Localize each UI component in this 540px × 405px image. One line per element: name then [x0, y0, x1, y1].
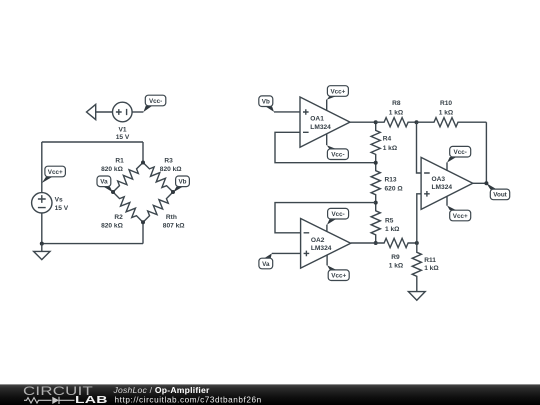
svg-text:15 V: 15 V — [55, 205, 69, 212]
svg-text:OA1: OA1 — [310, 116, 324, 123]
resistor R5 1 kΩ — [371, 203, 400, 243]
svg-text:820 kΩ: 820 kΩ — [101, 223, 124, 230]
svg-text:820 kΩ: 820 kΩ — [101, 166, 124, 173]
resistor R11 1 kΩ — [412, 243, 439, 292]
flag Vb (OA1 input) — [259, 96, 274, 112]
svg-text:Vcc-: Vcc- — [149, 98, 162, 105]
resistor R3 820 kΩ — [140, 158, 183, 196]
wire (bridge loop bottom) — [42, 243, 143, 245]
flag Vcc- (OA2 top) — [327, 208, 349, 224]
svg-text:807 kΩ: 807 kΩ — [163, 223, 186, 230]
svg-text:R9: R9 — [391, 254, 400, 261]
svg-text:Vs: Vs — [55, 196, 63, 203]
svg-text:http://circuitlab.com/c73dtban: http://circuitlab.com/c73dtbanbf26n — [115, 395, 262, 404]
svg-text:Vcc+: Vcc+ — [330, 88, 345, 95]
svg-text:JoshLoc / Op-Amplifier: JoshLoc / Op-Amplifier — [113, 385, 211, 395]
voltage source Vs 15 V — [32, 193, 69, 213]
svg-text:Vcc+: Vcc+ — [48, 169, 63, 176]
svg-text:R3: R3 — [164, 158, 173, 165]
resistor R2 820 kΩ — [101, 189, 146, 230]
svg-text:R2: R2 — [114, 214, 123, 221]
wire (top stub to bridge) — [142, 142, 144, 163]
svg-text:Rth: Rth — [166, 214, 177, 221]
flag Vcc+ (OA1 top) — [327, 86, 349, 100]
svg-text:LM324: LM324 — [432, 184, 453, 191]
resistor R8 1 kΩ — [376, 100, 417, 127]
svg-text:Vcc+: Vcc+ — [331, 273, 346, 280]
flag Vcc- (OA3 top) — [447, 146, 471, 162]
wire (Va to OA2 +) — [272, 252, 301, 254]
junction (R4 / R13 / OA1 feedback) — [374, 161, 378, 165]
ground (left-pointing, at V1 negative terminal) — [87, 104, 96, 119]
wire — [132, 111, 143, 113]
svg-text:1 kΩ: 1 kΩ — [383, 145, 398, 152]
svg-text:R4: R4 — [383, 136, 392, 143]
svg-text:Vcc+: Vcc+ — [453, 213, 468, 220]
svg-text:OA3: OA3 — [432, 176, 446, 183]
node (bridge right) — [171, 190, 175, 194]
flag Va (OA2 input) — [259, 253, 273, 268]
svg-text:LM324: LM324 — [310, 124, 331, 131]
wire (R8/R10 node to OA3 -) — [417, 122, 422, 173]
wire (bottom stub to bridge) — [142, 222, 144, 243]
ground (below bridge loop) — [34, 244, 50, 260]
flag Vcc+ (OA2 bottom) — [327, 265, 349, 280]
flag Vcc- (on V1) — [143, 95, 165, 112]
junction (OA1 out / R4 / R8) — [374, 120, 378, 124]
svg-text:R13: R13 — [385, 177, 397, 184]
wire (OA2 output) — [351, 242, 376, 244]
svg-text:15 V: 15 V — [116, 134, 130, 141]
svg-text:1 kΩ: 1 kΩ — [385, 226, 400, 233]
svg-text:Vb: Vb — [178, 179, 186, 186]
junction (R13 / R5 / OA2 feedback) — [374, 201, 378, 205]
resistor R10 1 kΩ — [417, 100, 487, 127]
flag Vcc- (OA1 bottom) — [327, 145, 349, 159]
logo resistor-diode glyph — [24, 398, 52, 403]
wire (Vs bottom down) — [41, 213, 43, 244]
svg-text:OA2: OA2 — [311, 237, 325, 244]
resistor R13 620 Ω — [371, 163, 403, 203]
flag Vcc+ (OA3 bottom) — [447, 206, 471, 221]
wire (OA1 feedback: junction to - input) — [275, 132, 376, 162]
flag Vb (bridge right node) — [173, 176, 189, 192]
node (bridge left) — [111, 190, 115, 194]
voltage source V1 15 V — [113, 102, 133, 141]
wire (OA3 power pin top) — [446, 162, 448, 171]
resistor R1 820 kΩ — [101, 158, 146, 196]
svg-text:R1: R1 — [115, 158, 124, 165]
op-amp OA2 LM324 — [301, 219, 351, 269]
ground (below R11) — [408, 292, 425, 301]
svg-text:R5: R5 — [385, 218, 394, 225]
svg-text:LAB: LAB — [75, 394, 108, 405]
wire (OA1 output) — [350, 121, 376, 123]
wire (OA2 power pin top) — [326, 225, 328, 232]
svg-text:Vcc-: Vcc- — [331, 211, 344, 218]
wire (OA3 power pin bottom) — [446, 196, 448, 206]
wire (OA3 + down to R9/R11 node) — [417, 194, 421, 243]
svg-text:V1: V1 — [118, 126, 126, 133]
wire — [96, 111, 113, 113]
wire (OA1 power pin bottom) — [326, 134, 328, 145]
svg-text:Vcc-: Vcc- — [331, 152, 344, 159]
wire (OA2 feedback: junction to - input) — [275, 203, 376, 233]
wire (bridge loop top) — [42, 141, 143, 143]
node (bridge top) — [141, 161, 145, 165]
wire (OA1 power pin top) — [326, 100, 328, 111]
wire (bridge loop left, down to Vs) — [41, 142, 43, 193]
wire (Vb to OA1 +) — [274, 111, 300, 113]
svg-text:Va: Va — [262, 261, 270, 268]
junction (R9 / R11 / OA3 +) — [415, 241, 419, 245]
resistor R4 1 kΩ — [371, 122, 398, 163]
svg-text:1 kΩ: 1 kΩ — [439, 110, 454, 117]
node (bridge bottom) — [141, 220, 145, 224]
svg-text:Va: Va — [100, 179, 108, 186]
junction (OA3 out / R10 / Vout) — [484, 181, 488, 185]
flag Vout — [486, 183, 509, 199]
wire (R10 right, down to OA3 output node) — [485, 122, 487, 183]
svg-text:Vb: Vb — [262, 99, 270, 106]
svg-text:LM324: LM324 — [311, 245, 332, 252]
svg-text:Vcc-: Vcc- — [454, 149, 467, 156]
svg-text:Vout: Vout — [493, 192, 507, 199]
svg-text:1 kΩ: 1 kΩ — [389, 110, 404, 117]
resistor R9 1 kΩ — [376, 238, 417, 269]
wire (OA3 output) — [473, 182, 487, 184]
svg-text:R10: R10 — [440, 100, 452, 107]
op-amp OA1 LM324 — [300, 97, 350, 147]
svg-text:R8: R8 — [392, 100, 401, 107]
svg-text:1 kΩ: 1 kΩ — [389, 262, 404, 269]
svg-text:820 kΩ: 820 kΩ — [160, 166, 183, 173]
junction (R5 / OA2 out / R9) — [374, 241, 378, 245]
junction (R8 / R10 / OA3 -) — [415, 120, 419, 124]
junction (ground tap) — [40, 242, 44, 246]
flag Va (bridge left node) — [97, 176, 113, 192]
flag Vcc+ (on left wire) — [42, 166, 66, 183]
resistor Rth 807 kΩ — [140, 189, 186, 230]
svg-text:R11: R11 — [424, 257, 436, 264]
footer bar — [0, 384, 540, 405]
op-amp OA3 LM324 — [421, 157, 473, 209]
svg-text:620 Ω: 620 Ω — [385, 185, 404, 192]
svg-text:1 kΩ: 1 kΩ — [424, 265, 439, 272]
wire (OA2 power pin bottom) — [326, 255, 328, 265]
